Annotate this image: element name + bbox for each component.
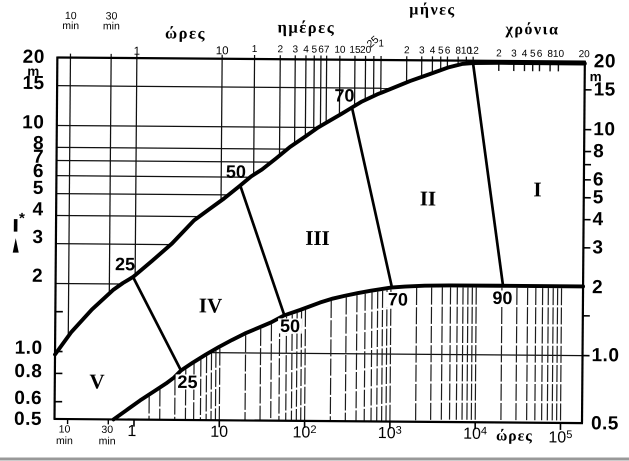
right tick 6 m [584, 179, 591, 181]
years tick 2y [498, 62, 500, 70]
svg-text:min: min [103, 20, 120, 32]
gridline 15 m level [57, 86, 392, 89]
hatch tick 50h [278, 320, 281, 421]
top gridline 2d [278, 55, 281, 155]
divider line 70% [351, 107, 394, 287]
top gridline 4mo [431, 56, 433, 73]
hatch tick 6000h [456, 288, 457, 423]
svg-text:5: 5 [530, 49, 536, 60]
bottom axis [54, 419, 583, 423]
years tick 6y [538, 63, 540, 71]
svg-text:5: 5 [593, 187, 604, 208]
svg-text:5: 5 [438, 45, 444, 56]
hatch tick 8000h [467, 288, 468, 423]
hatch tick 50000h [535, 288, 536, 423]
hatch tick 7000h [462, 288, 463, 423]
hatch tick 6h [199, 360, 201, 420]
top gridline 10mo [465, 57, 467, 64]
svg-text:70: 70 [388, 289, 408, 309]
gridline 8 m level [57, 147, 288, 149]
top gridline 8mo [457, 57, 459, 65]
svg-text:10: 10 [210, 424, 228, 441]
svg-text:10: 10 [553, 49, 565, 60]
svg-text:10: 10 [593, 119, 615, 140]
hatch tick 800h [382, 291, 383, 422]
svg-text:2: 2 [32, 266, 43, 287]
svg-text:70: 70 [334, 85, 354, 105]
svg-text:3: 3 [292, 44, 298, 55]
svg-text:10: 10 [216, 45, 229, 57]
label 25 lower [176, 374, 200, 389]
hatch tick 40000h [527, 288, 528, 423]
hatch tick 90000h [557, 288, 558, 423]
svg-text:0.6: 0.6 [14, 388, 42, 409]
hatch tick 200h [329, 301, 332, 421]
left tick 0.8 m [55, 372, 62, 374]
hatch tick 3h [174, 378, 176, 419]
hatch tick 1000h [390, 290, 391, 422]
top gridline 5mo [440, 56, 442, 70]
years tick 8y [549, 63, 551, 71]
top gridline 3mo [421, 56, 423, 77]
svg-text:IV: IV [199, 293, 223, 317]
top gridline 1mo [380, 56, 382, 93]
hatch tick 4h [184, 369, 186, 420]
svg-text:25: 25 [115, 254, 135, 274]
hatch tick 9000h [471, 288, 472, 423]
svg-text:min: min [99, 435, 116, 447]
svg-text:ώρες: ώρες [496, 427, 533, 444]
svg-text:m: m [590, 69, 602, 84]
scan artifact gray band [0, 458, 629, 461]
gridline 1.0 m level right section [210, 353, 582, 356]
hatch tick 4000h [441, 288, 442, 422]
hatch tick 700h [377, 292, 378, 422]
hatch tick 70000h [547, 288, 548, 423]
hatch tick 60h [285, 317, 288, 421]
gridline 4 m level [56, 215, 199, 216]
hatch tick 400h [355, 295, 358, 421]
hatch tick 10000h [475, 288, 476, 423]
svg-text:1: 1 [127, 423, 136, 440]
svg-text:1: 1 [378, 38, 384, 49]
svg-text:12: 12 [468, 46, 480, 57]
svg-text:50: 50 [280, 316, 300, 336]
y-axis label I* [14, 219, 18, 232]
svg-text:4: 4 [593, 209, 604, 230]
svg-text:ώρες: ώρες [165, 23, 206, 42]
hatch tick 3000h [431, 288, 432, 422]
divider line 90% [471, 63, 504, 285]
bottom major tick 100000h [559, 423, 561, 430]
svg-text:25: 25 [177, 372, 197, 392]
svg-text:ημέρες: ημέρες [278, 18, 336, 37]
top gridline 25d [373, 56, 375, 96]
top gridline 10h [221, 55, 222, 201]
svg-text:*: * [19, 210, 25, 227]
hatch tick 10h [218, 349, 221, 421]
left tick 1.5 m [55, 311, 62, 313]
top gridline 10min [68, 54, 70, 337]
svg-text:2: 2 [277, 44, 283, 55]
label 70 lower [386, 292, 410, 307]
svg-text:50: 50 [226, 162, 246, 182]
years tick 10y [557, 63, 559, 71]
right tick 15 m [585, 89, 592, 91]
svg-text:III: III [305, 226, 330, 250]
top gridline 5d [313, 55, 316, 130]
top gridline 4d [304, 55, 307, 136]
label 90 lower [491, 290, 515, 305]
hatch tick 8h [210, 353, 213, 420]
svg-text:6: 6 [445, 46, 451, 57]
bottom minor tick 0.5h [107, 419, 109, 424]
top gridline 1d [253, 55, 256, 175]
right tick 7 m [584, 164, 591, 166]
svg-text:7: 7 [324, 45, 330, 56]
bottom major tick 10000h [474, 422, 476, 429]
hatch tick 1.5h [148, 397, 150, 420]
left tick 0.6 m [55, 401, 62, 403]
hatch tick 9h [214, 351, 217, 420]
svg-text:3: 3 [419, 45, 425, 56]
svg-text:4: 4 [430, 45, 436, 56]
svg-text:1: 1 [134, 46, 141, 58]
svg-text:I: I [533, 177, 541, 201]
divider line 50% [239, 186, 285, 315]
svg-text:10: 10 [22, 112, 44, 133]
svg-text:V: V [89, 369, 104, 393]
svg-text:10: 10 [334, 45, 346, 56]
right tick 5 m [584, 197, 591, 199]
svg-text:min: min [56, 435, 73, 447]
right tick 1.0 m [583, 355, 590, 357]
right tick 8 m [584, 151, 591, 153]
top gridline 10d [338, 56, 340, 115]
right tick 4 m [584, 219, 591, 221]
svg-text:m: m [27, 64, 39, 79]
gridline 10 m level [57, 125, 318, 127]
top gridline 12mo [472, 57, 474, 63]
top gridline 6mo [446, 57, 448, 68]
hatch tick 5h [193, 364, 195, 420]
svg-text:3: 3 [32, 227, 43, 248]
svg-text:1: 1 [252, 44, 258, 55]
hatch tick 30h [259, 329, 262, 421]
hatch tick 20h [244, 335, 247, 420]
svg-text:min: min [62, 20, 79, 32]
svg-text:χρόνια: χρόνια [504, 21, 559, 38]
svg-text:μήνες: μήνες [409, 1, 456, 18]
top gridline 6d [319, 56, 322, 126]
upper envelope curve [55, 59, 585, 358]
top gridline 3d [294, 55, 297, 143]
hatch tick 20000h [501, 288, 502, 423]
svg-text:1.0: 1.0 [591, 345, 619, 366]
gridline 5 m level [56, 194, 228, 195]
svg-text:II: II [420, 186, 437, 210]
top gridline 20d [364, 56, 366, 100]
hatch tick 100h [304, 310, 307, 421]
svg-text:30: 30 [101, 424, 113, 436]
svg-text:8: 8 [593, 141, 604, 162]
svg-text:6: 6 [537, 49, 543, 60]
svg-text:2: 2 [496, 48, 502, 59]
hatch tick 100000h [560, 288, 561, 423]
hatch tick 5000h [449, 287, 450, 422]
svg-text:0.8: 0.8 [14, 361, 42, 382]
hatch tick 500h [364, 294, 365, 422]
years tick 4y [523, 63, 525, 71]
svg-text:3: 3 [511, 49, 517, 60]
top gridline 30min [109, 54, 111, 293]
right tick 1.5 m [583, 315, 590, 317]
hatch tick 80000h [552, 288, 553, 423]
svg-text:2: 2 [404, 45, 410, 56]
right tick 10 m [584, 129, 591, 131]
years tick 3y [513, 63, 515, 71]
right tick 3 m [583, 247, 590, 249]
gridline 2 m level [56, 282, 122, 285]
gridline 3 m level [56, 243, 171, 246]
hatch tick 600h [371, 292, 372, 421]
svg-text:10: 10 [59, 423, 71, 435]
hatch tick 40h [270, 324, 273, 420]
bottom major tick 100h [304, 421, 306, 428]
top gridline 2mo [406, 56, 408, 82]
hatch tick 70h [290, 315, 293, 421]
svg-text:4: 4 [522, 49, 528, 60]
bottom minor tick 0.16666666666666666h [67, 419, 69, 424]
hatch tick 300h [344, 297, 347, 421]
svg-text:5: 5 [311, 44, 317, 55]
bottom major tick 1000h [389, 422, 391, 429]
lower envelope curve [114, 283, 584, 423]
top gridline 7d [325, 56, 328, 123]
y-axis arrow [13, 238, 19, 253]
svg-text:0.5: 0.5 [14, 409, 42, 430]
gridline 6 m level [56, 176, 250, 178]
top gridline 1h [135, 54, 137, 275]
years tick 5y [532, 63, 534, 71]
hatch tick 90h [300, 311, 303, 420]
svg-text:1.0: 1.0 [15, 338, 43, 359]
top axis [57, 57, 584, 61]
hatch tick 7h [205, 356, 208, 420]
top gridline 15d [354, 56, 356, 106]
left axis [55, 56, 58, 418]
svg-text:0.5: 0.5 [591, 413, 619, 434]
hatch tick 80h [295, 313, 298, 421]
hatch tick 30000h [516, 288, 517, 423]
svg-text:3: 3 [592, 237, 603, 258]
left tick 1.0 m [55, 350, 62, 352]
hatch tick 900h [386, 290, 387, 421]
hatch tick 2h [159, 389, 161, 419]
right axis [582, 61, 585, 423]
svg-text:5: 5 [33, 178, 44, 199]
svg-text:4: 4 [303, 44, 309, 55]
svg-text:2: 2 [592, 277, 603, 298]
label 50 lower [278, 318, 302, 333]
bottom major tick 10h [218, 420, 220, 427]
svg-text:4: 4 [32, 199, 43, 220]
hatch tick 60000h [542, 288, 543, 423]
svg-text:90: 90 [492, 288, 512, 308]
gridline 7 m level [57, 160, 272, 162]
hatch tick 2000h [416, 288, 417, 422]
divider line 25% [132, 277, 181, 370]
bottom major tick 1h [133, 420, 135, 427]
svg-text:20: 20 [579, 49, 591, 60]
